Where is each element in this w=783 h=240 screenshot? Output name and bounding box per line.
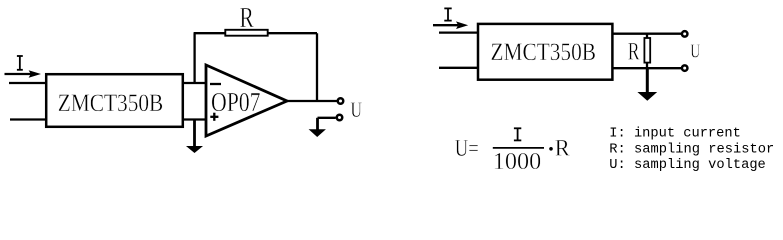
svg-text:R: R <box>628 39 640 66</box>
svg-text:R: sampling resistor: R: sampling resistor <box>609 141 774 157</box>
svg-text:U: U <box>351 97 363 122</box>
wire (left input arrowhead) <box>29 70 41 78</box>
wire (box to op-amp non-inverting input) <box>183 118 207 120</box>
transformer U1 ZMCT350B (left box) <box>46 74 183 127</box>
terminal (right output lower) <box>682 65 688 71</box>
wire (feedback right vertical drop) <box>316 33 318 101</box>
wire (right top input to box) <box>439 31 478 33</box>
resistor R (feedback resistor body) <box>225 30 267 36</box>
wire (feedback left vertical riser) <box>193 33 195 84</box>
node I (right input current label) <box>444 8 451 20</box>
svg-text:1000: 1000 <box>493 149 542 175</box>
svg-text:U: sampling voltage: U: sampling voltage <box>609 157 766 173</box>
wire (right input arrow line) <box>433 24 458 26</box>
wire (left top input to box) <box>9 82 47 84</box>
wire (right bottom input to box) <box>439 67 478 69</box>
node I (left input current label) <box>17 56 23 70</box>
svg-text:ZMCT350B: ZMCT350B <box>58 90 164 117</box>
svg-text:U=: U= <box>455 135 479 162</box>
ground (below non-inverting input) <box>186 120 203 154</box>
wire (right box to lower terminal) <box>613 67 682 69</box>
terminal (output lower) <box>337 115 343 121</box>
svg-text:I: input current: I: input current <box>609 126 741 142</box>
wire (left input arrow line) <box>5 73 32 75</box>
resistor R (sampling resistor body, vertical) <box>644 34 650 68</box>
terminal (right output upper) <box>682 31 688 37</box>
svg-text:U: U <box>690 41 700 63</box>
ground (below sampling resistor) <box>637 68 657 101</box>
wire (lower terminal to ground corner) <box>318 118 336 130</box>
wire (box to op-amp inverting input) <box>183 82 207 84</box>
terminal (output upper) <box>338 98 344 104</box>
pin - (inverting input marker) <box>210 83 221 85</box>
svg-text:R: R <box>555 135 571 160</box>
svg-text:ZMCT350B: ZMCT350B <box>491 39 597 66</box>
ground (below lower output terminal) <box>309 129 326 137</box>
transformer U3 ZMCT350B (right box) <box>478 24 612 80</box>
pin + (non-inverting input marker) <box>210 113 218 121</box>
label I (formula numerator) <box>514 128 521 140</box>
wire (right input arrowhead) <box>456 21 468 29</box>
wire (feedback top horizontal) <box>194 32 317 34</box>
svg-text:R: R <box>240 2 255 34</box>
svg-text:OP07: OP07 <box>211 87 261 117</box>
wire (fraction bar) <box>493 147 544 149</box>
op-amp U2 OP07 (triangle) <box>206 65 287 136</box>
label dot (multiplication dot) <box>549 147 553 151</box>
wire (left bottom input to box) <box>10 118 47 120</box>
wire (right box to upper terminal) <box>613 33 682 35</box>
wire (op-amp output) <box>287 100 337 102</box>
